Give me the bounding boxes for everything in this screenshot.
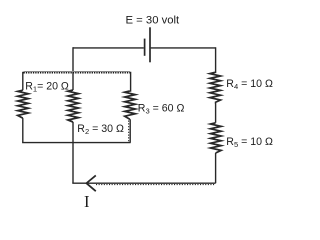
current arrow on bottom rail <box>86 175 95 191</box>
wire bottom rail <box>72 182 215 184</box>
wire R5 down to bottom rail <box>215 153 217 183</box>
resistor R5 <box>211 123 222 153</box>
resistor R2 <box>68 90 79 122</box>
wire dotted overlay on box right edge <box>128 121 130 143</box>
svg-text:R4 = 10 Ω: R4 = 10 Ω <box>226 78 273 91</box>
wire between R4 and R5 <box>214 103 217 123</box>
wire box bottom rail <box>22 142 131 144</box>
svg-text:R5 = 10 Ω: R5 = 10 Ω <box>226 136 273 149</box>
wire R3 bottom lead <box>129 119 131 142</box>
wire right vertical top (to R4) <box>214 47 217 72</box>
wire battery down to node (left vertical drop) <box>72 47 74 90</box>
wire box left edge upper lead <box>22 72 24 90</box>
resistor R4 <box>210 72 221 102</box>
wire R2 bottom lead down to bottom rail <box>72 122 74 183</box>
svg-text:R1= 20 Ω: R1= 20 Ω <box>25 81 69 94</box>
svg-text:I: I <box>84 192 90 211</box>
wire top-right (battery to right branch) <box>151 47 216 49</box>
wire box right edge upper lead <box>129 72 132 91</box>
resistor R3 <box>125 91 136 119</box>
battery E long plate (positive) <box>149 27 151 62</box>
resistor R1 <box>18 90 29 118</box>
svg-text:R2 = 30 Ω: R2 = 30 Ω <box>77 123 124 136</box>
svg-text:E = 30 volt: E = 30 volt <box>126 14 181 26</box>
svg-text:R3 = 60 Ω: R3 = 60 Ω <box>138 103 185 116</box>
wire top-left (battery to left branch) <box>73 47 144 49</box>
wire dotted overlay under bottom rail <box>96 184 215 186</box>
wire R1 bottom lead <box>22 118 24 143</box>
battery E short plate (negative) <box>144 39 146 56</box>
node dotted rail (parallel box top, dotted) <box>24 71 131 73</box>
